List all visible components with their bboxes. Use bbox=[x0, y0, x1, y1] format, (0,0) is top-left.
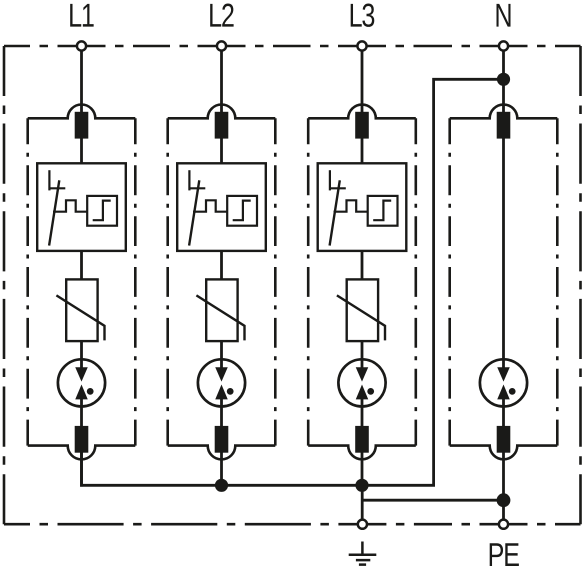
top terminal N bbox=[497, 112, 511, 139]
outer border bottom (dash-dot) bbox=[4, 523, 581, 526]
wire trigger box to varistor bbox=[80, 250, 83, 280]
wire terminal to trigger box bbox=[361, 138, 364, 164]
varistor L2 bbox=[206, 279, 237, 341]
triggered spark gap unit L2 bbox=[177, 163, 266, 251]
wire varistor to spark gap bbox=[220, 341, 223, 369]
terminal circle N bbox=[499, 41, 508, 50]
spark gap with indicator N bbox=[480, 359, 527, 406]
wire spark gap to bottom terminal bbox=[220, 399, 223, 428]
wire bottom terminal to bus bbox=[220, 452, 223, 487]
wire ground drop to PE drop bbox=[362, 499, 503, 502]
wire trigger box to varistor bbox=[220, 250, 223, 280]
branch box L2 bbox=[168, 105, 276, 119]
bottom terminal N bbox=[497, 426, 511, 453]
branch box N bbox=[450, 105, 558, 119]
outer border top (dash-dot) bbox=[4, 45, 581, 48]
terminal circle L1 bbox=[77, 41, 86, 50]
terminal circle L3 bbox=[357, 41, 366, 50]
branch box L1 bbox=[28, 105, 136, 119]
outer border left (dash-dot) bbox=[3, 46, 6, 524]
bottom terminal L2 bbox=[215, 426, 229, 453]
wire L2 terminal to box bbox=[220, 50, 223, 113]
wire trigger box to varistor bbox=[361, 250, 364, 280]
varistor L1 bbox=[66, 279, 97, 341]
wire bottom terminal to bus bbox=[80, 452, 83, 487]
varistor L3 bbox=[347, 279, 378, 341]
junction dot PE bbox=[497, 493, 511, 507]
wire varistor to spark gap bbox=[361, 341, 364, 369]
outer border right (dash-dot) bbox=[579, 46, 582, 524]
wire N terminal to spark gap bbox=[502, 138, 505, 369]
wire spark gap to bottom terminal N bbox=[502, 399, 505, 428]
wire N terminal down bbox=[502, 50, 505, 113]
junction dot N top bbox=[497, 73, 510, 86]
wire L3 terminal to box bbox=[361, 50, 364, 113]
branch box L3 bbox=[308, 105, 416, 119]
spark gap with indicator L2 bbox=[198, 359, 245, 406]
wire bus to ground terminal bbox=[361, 485, 364, 524]
label N bbox=[497, 4, 511, 27]
wire N bottom terminal to PE terminal bbox=[502, 452, 505, 524]
wire terminal to trigger box bbox=[220, 138, 223, 164]
wire N junction to bus (left + down) and bus to L1 bbox=[82, 79, 504, 485]
terminal circle L2 bbox=[217, 41, 226, 50]
spark gap with indicator L1 bbox=[58, 359, 105, 406]
label L1 bbox=[70, 4, 93, 27]
top terminal L1 bbox=[75, 112, 89, 139]
bottom terminal L1 bbox=[75, 426, 89, 453]
bottom terminal L3 bbox=[355, 426, 369, 453]
wire spark gap to bottom terminal bbox=[361, 399, 364, 428]
ground terminal circle bbox=[358, 520, 367, 529]
wire spark gap to bottom terminal bbox=[80, 399, 83, 428]
triggered spark gap unit L1 bbox=[37, 163, 126, 251]
label PE bbox=[490, 543, 519, 566]
label L3 bbox=[351, 4, 375, 27]
spark gap with indicator L3 bbox=[338, 359, 385, 406]
top terminal L3 bbox=[355, 112, 369, 139]
wire L1 terminal to box bbox=[80, 50, 83, 113]
top terminal L2 bbox=[215, 112, 229, 139]
junction dot L2 bus bbox=[215, 479, 228, 492]
triggered spark gap unit L3 bbox=[318, 163, 407, 251]
wire bottom terminal to bus bbox=[361, 452, 364, 487]
junction dot L3 bus bbox=[355, 479, 368, 492]
wire terminal to trigger box bbox=[80, 138, 83, 164]
earth ground symbol bbox=[349, 542, 377, 565]
wire varistor to spark gap bbox=[80, 341, 83, 369]
label L2 bbox=[210, 4, 233, 27]
PE terminal circle bbox=[499, 520, 508, 529]
